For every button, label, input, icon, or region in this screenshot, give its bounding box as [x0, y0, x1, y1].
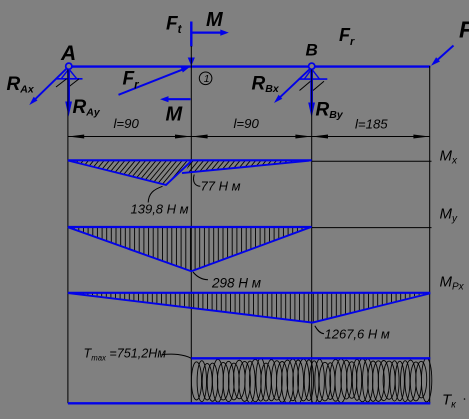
svg-text:298 Н м: 298 Н м — [211, 276, 261, 291]
svg-text:RBy: RBy — [316, 100, 344, 122]
svg-text:Ft: Ft — [166, 14, 183, 37]
svg-text:Tmax =751,2Нм: Tmax =751,2Нм — [84, 346, 167, 362]
reaction force R_Ay arrow — [65, 70, 72, 117]
node B support (pin symbol) — [299, 63, 328, 90]
svg-text:77 Н м: 77 Н м — [201, 179, 241, 194]
svg-text:l=90: l=90 — [114, 116, 140, 131]
wire beam shaft A-B-end — [71, 65, 431, 67]
svg-text:1: 1 — [204, 73, 210, 85]
Msum hatch — [70, 291, 429, 324]
svg-text:l=90: l=90 — [234, 116, 260, 131]
svg-text:MРх: MРх — [440, 274, 465, 293]
svg-text:Fr: Fr — [339, 25, 355, 48]
svg-text:Fr: Fr — [123, 69, 140, 92]
section mark 1 (circled) — [199, 72, 212, 85]
Mx shallow line outline — [182, 161, 309, 173]
leader Tmax — [162, 354, 192, 358]
Msum triangle outline — [68, 293, 430, 323]
leader 298 — [193, 272, 208, 280]
moment M arrow top — [191, 30, 229, 36]
Msum axis blue — [68, 292, 430, 294]
wire vertical line at right end — [429, 66, 431, 403]
force F_r arrow — [119, 66, 191, 95]
svg-text:Mу: Mу — [440, 206, 459, 225]
wire vertical line at B — [311, 70, 313, 404]
svg-text:F: F — [459, 17, 469, 43]
leader 77 — [194, 175, 201, 187]
reaction force R_Bx arrow — [274, 68, 311, 103]
Mx axis blue — [68, 159, 312, 161]
My hatch — [70, 226, 312, 272]
svg-text:1267,6 Н м: 1267,6 Н м — [325, 327, 390, 342]
svg-text:M: M — [206, 9, 224, 31]
wire vertical line at section 1 — [190, 46, 192, 403]
Tk torque band ellipse hatch — [191, 358, 431, 404]
svg-text:Tк: Tк — [442, 392, 457, 411]
svg-text:M: M — [166, 104, 184, 126]
Tk bottom line — [68, 402, 430, 404]
force F arrow right end — [431, 46, 454, 66]
svg-text:RAy: RAy — [73, 97, 101, 119]
My axis blue — [68, 226, 312, 228]
svg-text:A: A — [60, 42, 76, 65]
My triangle outline — [68, 227, 310, 271]
Mx left triangle outline — [68, 161, 191, 185]
leader 1267.6 — [315, 326, 324, 334]
svg-text:Mх: Mх — [440, 148, 459, 167]
reaction force R_Ax arrow — [29, 68, 67, 105]
svg-text:B: B — [306, 41, 318, 60]
dimension line — [68, 136, 430, 138]
moment M arrow bottom — [160, 96, 191, 102]
reaction force R_By arrow — [308, 70, 315, 118]
Tk top line — [191, 357, 430, 359]
svg-text:139,8 Н м: 139,8 Н м — [131, 202, 189, 217]
node A support (pin symbol) — [56, 63, 83, 87]
wire vertical line at A — [67, 70, 69, 404]
Mx hatch shallow triangle — [178, 156, 327, 179]
Mx hatch left triangle — [52, 157, 221, 192]
force F_t arrow — [188, 22, 195, 67]
svg-text:l=185: l=185 — [355, 117, 388, 132]
My axis (black part) — [312, 227, 432, 229]
svg-text:RBx: RBx — [252, 74, 280, 96]
dimension arrows — [68, 135, 429, 139]
Mx axis (black part) — [312, 160, 432, 162]
svg-text:RAx: RAx — [7, 74, 35, 96]
leader 139.8 — [148, 186, 162, 202]
